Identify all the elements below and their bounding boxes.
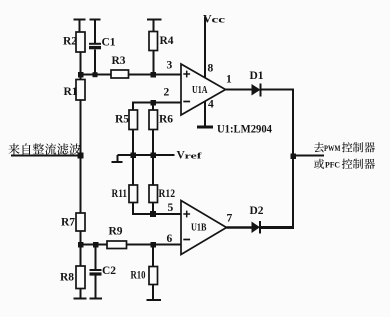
terminal bar above R4 (147, 19, 162, 21)
svg-text:U1:LM2904: U1:LM2904 (217, 124, 272, 136)
wire R5 bottom lead (132, 130, 134, 156)
junction C1 on node wire (93, 72, 98, 77)
svg-text:R5: R5 (115, 114, 129, 126)
wire R2 top lead (79, 20, 81, 33)
junction R6/R12 (151, 153, 157, 159)
svg-text:C2: C2 (102, 265, 116, 277)
resistor R5 (115, 110, 138, 130)
wire R4 bottom lead (153, 51, 155, 75)
terminal bar below R8 (74, 298, 87, 300)
ground stub left of Vref row (112, 155, 123, 162)
wire Vref row (118, 154, 175, 156)
svg-text:U1A: U1A (192, 85, 208, 96)
svg-text:3: 3 (167, 60, 173, 72)
svg-text:R4: R4 (160, 35, 174, 47)
wire output stub to labels (293, 155, 324, 157)
svg-text:ref: ref (185, 151, 202, 161)
svg-text:U1B: U1B (191, 223, 207, 234)
terminal bar below R10 (147, 299, 162, 301)
svg-text:R9: R9 (109, 226, 123, 238)
wire R10 bottom lead (152, 285, 154, 301)
wire R2 bottom lead (80, 52, 82, 75)
terminal bar above C1 (90, 19, 101, 21)
resistor R1 (64, 75, 86, 100)
junction R10 on pin6 wire (151, 242, 157, 248)
op-amp U1A (181, 64, 226, 115)
wire U1A output (226, 89, 252, 91)
wire R3 to pin 3 of U1A (129, 74, 182, 76)
svg-text:5: 5 (168, 202, 174, 214)
wire R1 down to input node (80, 100, 82, 156)
resistor R3 (111, 55, 129, 78)
svg-text:PFC: PFC (325, 160, 340, 170)
wire node row to R9 (81, 244, 108, 246)
terminal bar above R2 (74, 19, 86, 21)
svg-text:C1: C1 (102, 37, 116, 49)
svg-text:cc: cc (212, 15, 226, 25)
junction on right bus (291, 154, 297, 160)
wire pin 2 of U1A (133, 103, 181, 111)
label Vcc (203, 12, 225, 26)
resistor R11 (112, 155, 138, 203)
svg-text:2: 2 (164, 87, 170, 99)
svg-text:R2: R2 (63, 36, 77, 48)
label 来自整流滤波 (8, 143, 80, 154)
wire C1 bottom lead (94, 50, 96, 75)
svg-text:R1: R1 (64, 86, 78, 98)
wire left column to R7 (80, 156, 82, 214)
junction R6 on pin2 wire (151, 100, 157, 106)
svg-text:4: 4 (208, 99, 214, 111)
op-amp U1B (181, 201, 227, 255)
wire U1B output (227, 226, 252, 229)
wire right bus vertical (292, 90, 294, 228)
wire C1 top lead (94, 20, 96, 44)
svg-text:1: 1 (226, 74, 232, 86)
resistor R10 (131, 245, 158, 285)
svg-text:D2: D2 (250, 205, 264, 217)
wire Vcc to pin 8 (204, 17, 206, 78)
junction R5/R11 (131, 153, 137, 159)
resistor R8 (60, 245, 85, 289)
wire R12 bottom lead (152, 203, 154, 215)
wire R4 top lead (153, 20, 155, 32)
resistor R12 (149, 155, 175, 203)
node junction R2/R1/C1 (78, 72, 84, 78)
svg-text:8: 8 (208, 63, 214, 75)
resistor R9 (107, 226, 127, 249)
resistor R7 (61, 213, 85, 231)
label Vref (177, 150, 202, 162)
wire C2 bottom lead (95, 276, 97, 299)
resistor R4 (149, 32, 174, 51)
label 去PWM控制器 (314, 142, 375, 153)
wire D2 to right bus (260, 226, 294, 229)
svg-text:R11: R11 (112, 188, 128, 200)
junction C2 node (93, 242, 99, 248)
resistor R2 (63, 32, 85, 52)
svg-text:R12: R12 (159, 188, 176, 200)
diode D1 (250, 70, 264, 97)
capacitor C2 (90, 245, 117, 277)
svg-text:R8: R8 (60, 272, 74, 284)
label 或PFC控制器 (314, 159, 375, 170)
wire R9 to pin 6 of U1B (127, 244, 182, 246)
wire R7 bottom lead (80, 231, 82, 245)
junction input node (78, 153, 84, 159)
svg-text:PWM: PWM (324, 143, 341, 153)
capacitor C1 (89, 37, 116, 49)
junction R7/R8 node (78, 242, 84, 248)
junction R12 on pin5 wire (150, 211, 156, 217)
wire node to R3 (81, 74, 112, 76)
diode D2 (250, 205, 264, 234)
wire pin 4 to ground (204, 102, 206, 127)
wire R8 bottom lead (80, 289, 82, 299)
wire pin 5 of U1B (133, 203, 181, 215)
wire D1 to right bus (261, 89, 295, 91)
wire R6 bottom lead (152, 130, 154, 156)
svg-text:R10: R10 (131, 270, 146, 282)
terminal bar below C2 (90, 298, 103, 300)
svg-text:7: 7 (227, 213, 233, 225)
svg-text:D1: D1 (250, 70, 264, 82)
junction R4 on pin3 wire (151, 72, 157, 78)
svg-text:6: 6 (167, 233, 173, 245)
wire input lead (under 来自整流滤波) (11, 155, 81, 157)
svg-text:R7: R7 (61, 217, 75, 229)
ground bar pin 4 (197, 126, 213, 129)
resistor R6 (149, 103, 173, 130)
svg-text:R6: R6 (159, 114, 173, 126)
svg-text:R3: R3 (112, 55, 126, 67)
